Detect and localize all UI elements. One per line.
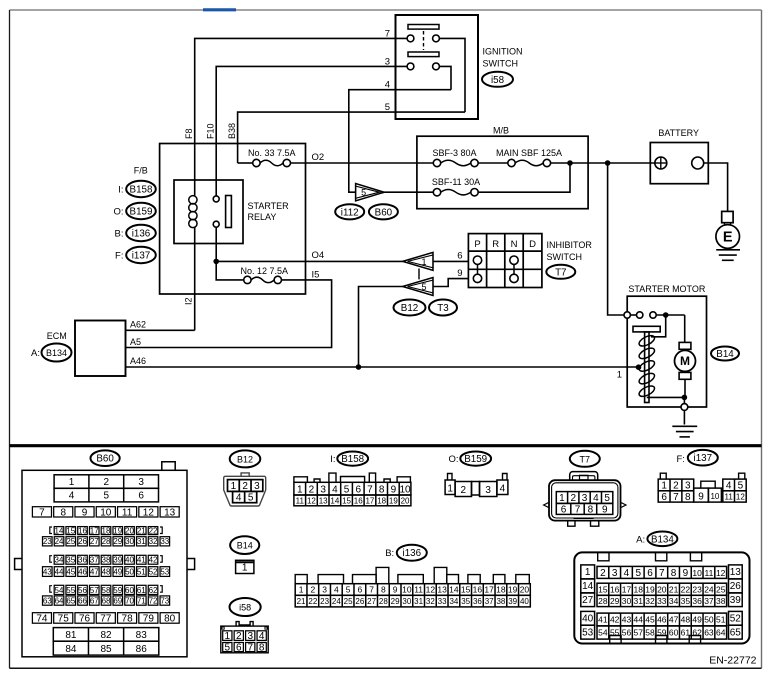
svg-text:4: 4 — [69, 491, 75, 502]
svg-text:9: 9 — [698, 491, 704, 502]
i136 cells 21-40 — [295, 595, 530, 607]
svg-text:i58: i58 — [239, 603, 251, 613]
wire F10 (pin 3 to fuse box) — [216, 66, 407, 143]
svg-text:A5: A5 — [130, 337, 141, 347]
svg-text:2: 2 — [461, 485, 467, 496]
starter relay contact bar — [226, 196, 232, 228]
svg-text:1: 1 — [559, 493, 565, 504]
svg-text:5: 5 — [225, 643, 231, 654]
svg-text:54: 54 — [55, 586, 64, 595]
svg-text:ECM: ECM — [47, 331, 67, 341]
svg-text:F:: F: — [115, 250, 123, 261]
svg-text:7: 7 — [575, 505, 581, 516]
B134 left column cells 1,14,27,40,53 — [581, 565, 595, 579]
svg-text:10: 10 — [399, 484, 411, 495]
B134 cells 2-12 — [597, 566, 727, 578]
i58 cells 1-4 — [223, 631, 232, 641]
B60 cells 1-3 — [54, 475, 158, 489]
svg-text:O4: O4 — [312, 250, 325, 261]
svg-text:19: 19 — [508, 585, 518, 595]
ground symbol under starter motor — [672, 425, 697, 427]
B134 cells 15-25 — [597, 583, 727, 595]
svg-text:44: 44 — [55, 567, 64, 576]
svg-text:20: 20 — [401, 496, 410, 505]
svg-text:51: 51 — [716, 615, 726, 625]
svg-text:86: 86 — [136, 644, 148, 655]
svg-text:I:: I: — [330, 454, 335, 465]
B60 cells 74-80 — [32, 613, 51, 624]
svg-text:7: 7 — [673, 492, 679, 503]
wire 6 (triangle 1 to inhibitor switch) — [433, 260, 468, 262]
svg-text:20: 20 — [520, 585, 530, 595]
svg-text:4: 4 — [334, 585, 339, 595]
svg-text:B14: B14 — [716, 349, 734, 360]
svg-text:I5: I5 — [312, 270, 320, 281]
B134 cells 54-64 — [597, 626, 727, 639]
svg-text:4: 4 — [624, 568, 630, 579]
B134 body — [574, 552, 749, 643]
svg-text:21: 21 — [137, 526, 146, 535]
M/B box — [417, 136, 588, 209]
svg-text:65: 65 — [730, 628, 742, 639]
T7 side latches — [544, 502, 549, 507]
svg-text:9: 9 — [82, 507, 88, 518]
svg-text:8: 8 — [60, 507, 66, 518]
svg-text:17: 17 — [365, 496, 374, 505]
svg-text:1: 1 — [585, 567, 591, 578]
svg-text:26: 26 — [355, 597, 364, 606]
svg-text:64: 64 — [55, 596, 64, 605]
svg-text:49: 49 — [113, 567, 122, 576]
svg-text:37: 37 — [90, 556, 99, 565]
svg-text:3: 3 — [254, 481, 260, 492]
svg-text:9: 9 — [457, 268, 462, 279]
svg-text:24: 24 — [704, 584, 714, 594]
B60 cells 81-83 — [53, 628, 159, 642]
svg-text:8: 8 — [685, 492, 691, 503]
svg-text:61: 61 — [681, 628, 691, 638]
svg-text:6: 6 — [561, 505, 567, 516]
wire solenoid bottom to motor bottom — [647, 396, 685, 398]
node battery junction — [605, 160, 611, 166]
svg-text:4: 4 — [593, 493, 599, 504]
connector pinout i58 oval — [230, 598, 261, 616]
svg-text:25: 25 — [66, 537, 75, 546]
T7 cells 1-5 — [556, 492, 613, 504]
svg-text:i136: i136 — [132, 229, 151, 240]
svg-text:84: 84 — [65, 644, 77, 655]
wire I5 (fuse 12 to ECM A5) — [126, 280, 332, 348]
node O4 junction — [213, 259, 219, 265]
svg-text:I2: I2 — [184, 297, 194, 305]
svg-text:47: 47 — [90, 567, 99, 576]
B158 top tabs — [294, 477, 308, 483]
ignition switch mechanical link (dashed) — [423, 31, 425, 50]
svg-text:4: 4 — [236, 493, 242, 504]
svg-text:B60: B60 — [96, 454, 114, 465]
svg-text:2: 2 — [570, 493, 576, 504]
svg-text:74: 74 — [36, 614, 48, 625]
svg-text:5: 5 — [344, 484, 350, 495]
svg-text:20: 20 — [125, 526, 134, 535]
node wire 1 to solenoid — [636, 364, 642, 370]
svg-text:33: 33 — [160, 537, 169, 546]
svg-text:63: 63 — [43, 596, 52, 605]
svg-text:28: 28 — [379, 597, 388, 606]
svg-text:40: 40 — [125, 556, 134, 565]
svg-text:56: 56 — [622, 628, 632, 638]
svg-text:36: 36 — [78, 556, 87, 565]
svg-text:12: 12 — [307, 496, 316, 505]
svg-text:26: 26 — [78, 537, 87, 546]
svg-text:22: 22 — [308, 597, 317, 606]
wire F8 (pin 7 to fuse box) — [195, 38, 407, 143]
svg-text:3: 3 — [322, 585, 327, 595]
starter relay box — [174, 180, 243, 244]
svg-text:4: 4 — [500, 484, 506, 495]
svg-text:53: 53 — [160, 567, 169, 576]
connector pinout B14 oval — [230, 536, 259, 554]
svg-text:11: 11 — [724, 492, 733, 501]
svg-text:EN-22772: EN-22772 — [709, 655, 756, 667]
svg-text:No. 33 7.5A: No. 33 7.5A — [248, 148, 296, 158]
svg-text:B12: B12 — [401, 303, 418, 314]
B134 right column cells 13,26,39,52,65 — [729, 565, 743, 579]
svg-text:B134: B134 — [46, 348, 67, 358]
svg-text:17: 17 — [622, 584, 632, 594]
svg-text:11: 11 — [122, 507, 133, 518]
svg-text:31: 31 — [137, 537, 146, 546]
i136 cells 1-20 — [295, 584, 530, 596]
svg-text:16: 16 — [354, 496, 363, 505]
svg-text:IGNITION: IGNITION — [483, 47, 523, 57]
svg-text:16: 16 — [78, 526, 87, 535]
svg-text:5: 5 — [248, 493, 254, 504]
connector oval i58 — [482, 72, 513, 87]
wire O2 (fuse 33 to M/B) — [291, 162, 434, 164]
svg-text:59: 59 — [657, 628, 667, 638]
svg-text:18: 18 — [102, 526, 111, 535]
ignition switch pin 7 contacts — [407, 35, 414, 42]
svg-text:1: 1 — [225, 631, 231, 642]
svg-text:SWITCH: SWITCH — [483, 59, 519, 69]
starter motor case terminal — [681, 404, 688, 411]
svg-text:24: 24 — [332, 597, 341, 606]
svg-text:16: 16 — [610, 584, 620, 594]
B134 cells 28-38 — [597, 595, 727, 606]
node motor ground junction — [682, 395, 688, 401]
svg-text:14: 14 — [582, 581, 594, 592]
svg-text:36: 36 — [473, 597, 482, 606]
svg-text:81: 81 — [65, 630, 77, 641]
svg-text:STARTER MOTOR: STARTER MOTOR — [628, 284, 706, 294]
svg-text:R: R — [492, 239, 499, 250]
inhibitor contact links — [477, 264, 479, 274]
i58 cells 5-8 — [223, 643, 232, 652]
svg-text:5: 5 — [604, 493, 610, 504]
B60 cells 23-33 — [43, 537, 53, 546]
svg-text:24: 24 — [55, 537, 64, 546]
svg-text:RELAY: RELAY — [248, 212, 277, 222]
svg-text:28: 28 — [102, 537, 111, 546]
svg-text:F/B: F/B — [134, 166, 148, 176]
svg-text:1: 1 — [231, 481, 237, 492]
svg-text:39: 39 — [113, 556, 122, 565]
svg-text:76: 76 — [79, 614, 91, 625]
svg-text:11: 11 — [414, 585, 423, 595]
svg-text:10: 10 — [402, 585, 412, 595]
connector pinout i58 body — [236, 622, 239, 627]
svg-text:30: 30 — [622, 596, 632, 606]
ground symbol below E — [716, 249, 740, 251]
svg-text:79: 79 — [143, 614, 155, 625]
wire SBF-11 to junction — [478, 163, 570, 192]
svg-text:42: 42 — [610, 615, 620, 625]
svg-text:25: 25 — [716, 584, 726, 594]
ground point square — [722, 211, 733, 222]
svg-text:46: 46 — [657, 615, 667, 625]
svg-text:45: 45 — [645, 615, 655, 625]
svg-text:25: 25 — [344, 597, 353, 606]
svg-text:8: 8 — [379, 484, 385, 495]
svg-text:22: 22 — [149, 526, 158, 535]
connector pinout T7 oval — [570, 451, 600, 467]
B134 bottom notches — [610, 636, 621, 645]
svg-text:i136: i136 — [403, 548, 422, 559]
svg-text:1: 1 — [297, 484, 303, 495]
svg-text:5: 5 — [421, 282, 426, 292]
T7 top tab — [570, 472, 598, 481]
svg-text:i112: i112 — [341, 207, 359, 218]
svg-text:51: 51 — [137, 567, 146, 576]
svg-text:6: 6 — [357, 585, 362, 595]
svg-text:SBF-3 80A: SBF-3 80A — [432, 148, 476, 158]
inhibitor contacts row 9 — [473, 274, 481, 282]
svg-text:B14: B14 — [237, 541, 253, 551]
svg-text:1: 1 — [242, 563, 248, 574]
svg-text:66: 66 — [78, 596, 87, 605]
wire pin7 right contact to pin5 feed — [439, 38, 465, 112]
connector oval T3 — [429, 300, 457, 316]
svg-text:6: 6 — [355, 484, 361, 495]
svg-text:6: 6 — [236, 643, 242, 654]
svg-text:B60: B60 — [375, 207, 393, 218]
svg-text:5: 5 — [104, 491, 110, 502]
svg-text:M/B: M/B — [493, 126, 509, 136]
B60 cells 34-42 — [54, 555, 64, 564]
wire junction to plunger — [651, 315, 666, 337]
i136 top tabs — [295, 575, 307, 584]
svg-text:B158: B158 — [130, 185, 153, 196]
svg-text:6: 6 — [457, 251, 462, 262]
svg-text:16: 16 — [473, 585, 483, 595]
svg-text:5: 5 — [346, 585, 351, 595]
B60 cells 7-13 — [32, 507, 51, 517]
svg-text:12: 12 — [736, 492, 745, 501]
solenoid plunger shaft — [645, 332, 649, 403]
svg-text:T7: T7 — [580, 454, 591, 464]
svg-text:6: 6 — [138, 491, 144, 502]
svg-text:12: 12 — [426, 585, 436, 595]
ignition switch contact bar lower — [408, 52, 439, 57]
svg-text:58: 58 — [645, 628, 655, 638]
svg-text:9: 9 — [393, 585, 398, 595]
wire MAIN SBF to battery — [551, 162, 655, 164]
svg-text:3: 3 — [485, 485, 491, 496]
svg-text:42: 42 — [149, 556, 158, 565]
joint connector triangle 5 (B12/T3) — [403, 278, 433, 296]
node M/B junction — [567, 160, 573, 166]
svg-text:50: 50 — [125, 567, 134, 576]
svg-text:55: 55 — [66, 586, 75, 595]
svg-text:4: 4 — [726, 481, 732, 492]
svg-text:MAIN SBF 125A: MAIN SBF 125A — [496, 148, 562, 158]
wire relay to fuse No.12 — [216, 261, 244, 280]
svg-text:68: 68 — [102, 596, 111, 605]
svg-text:i137: i137 — [132, 251, 151, 262]
svg-text:B159: B159 — [464, 454, 487, 465]
svg-text:21: 21 — [669, 584, 679, 594]
svg-text:F:: F: — [676, 454, 684, 465]
svg-text:63: 63 — [704, 628, 714, 638]
svg-text:39: 39 — [730, 595, 742, 606]
svg-text:No. 12 7.5A: No. 12 7.5A — [241, 266, 289, 276]
svg-text:75: 75 — [58, 614, 70, 625]
svg-text:15: 15 — [66, 526, 75, 535]
svg-text:18: 18 — [496, 585, 506, 595]
node A46/joint junction — [356, 364, 362, 370]
B60 cells 54-62 — [54, 585, 64, 594]
connector oval B12 — [394, 300, 426, 316]
svg-text:i58: i58 — [491, 75, 505, 86]
node solenoid junction — [663, 312, 669, 318]
svg-text:18: 18 — [634, 584, 644, 594]
connector pinout B60 body — [22, 470, 187, 657]
connector pinout B60 oval — [91, 450, 120, 466]
svg-text:32: 32 — [149, 537, 158, 546]
svg-text:14: 14 — [330, 496, 339, 505]
svg-text:10: 10 — [710, 492, 719, 501]
svg-text:F8: F8 — [184, 128, 194, 139]
wire 9 (triangle 5 to inhibitor switch) — [433, 279, 468, 287]
svg-text:B12: B12 — [237, 454, 253, 464]
svg-text:30: 30 — [125, 537, 134, 546]
B158 cells 11-20 — [294, 495, 411, 506]
T7 cells 6-9 — [556, 503, 613, 514]
svg-text:13: 13 — [730, 567, 742, 578]
svg-text:31: 31 — [414, 597, 423, 606]
B60 cells 43-53 — [43, 567, 53, 577]
solenoid contact terminals — [624, 312, 630, 318]
svg-text:5: 5 — [738, 481, 744, 492]
svg-text:BATTERY: BATTERY — [658, 128, 699, 138]
svg-text:3: 3 — [138, 477, 144, 488]
svg-text:82: 82 — [100, 630, 112, 641]
svg-text:48: 48 — [681, 615, 691, 625]
svg-text:41: 41 — [598, 615, 608, 625]
inhibitor contacts row 6 — [473, 256, 481, 264]
svg-text:38: 38 — [716, 596, 726, 606]
starter relay coil on F8 line — [194, 144, 196, 196]
wire pin 4 to joint connector i112 — [349, 90, 451, 193]
joint connector triangle 5 (i112/B60) — [356, 184, 385, 201]
svg-text:65: 65 — [66, 596, 75, 605]
svg-text:46: 46 — [78, 567, 87, 576]
svg-text:34: 34 — [669, 596, 679, 606]
svg-text:12: 12 — [143, 507, 155, 518]
svg-text:23: 23 — [320, 597, 329, 606]
svg-text:57: 57 — [90, 586, 99, 595]
svg-text:3: 3 — [685, 481, 691, 492]
svg-text:F10: F10 — [206, 123, 216, 139]
svg-text:5: 5 — [635, 568, 641, 579]
svg-text:49: 49 — [692, 615, 702, 625]
svg-text:8: 8 — [259, 643, 265, 654]
svg-text:21: 21 — [297, 597, 306, 606]
svg-text:41: 41 — [137, 556, 146, 565]
svg-text:35: 35 — [66, 556, 75, 565]
svg-text:23: 23 — [692, 584, 702, 594]
svg-text:27: 27 — [367, 597, 376, 606]
svg-text:A46: A46 — [130, 356, 146, 366]
svg-text:35: 35 — [681, 596, 691, 606]
svg-text:19: 19 — [113, 526, 122, 535]
svg-text:32: 32 — [645, 596, 655, 606]
connector pinout B14 cell 1 — [236, 560, 254, 573]
svg-text:40: 40 — [520, 597, 529, 606]
ignition switch pin 3 contacts — [407, 63, 414, 70]
svg-text:4: 4 — [332, 484, 338, 495]
svg-text:M: M — [680, 354, 690, 368]
svg-text:11: 11 — [704, 568, 713, 578]
svg-text:19: 19 — [389, 496, 398, 505]
svg-text:D: D — [529, 239, 536, 250]
svg-text:60: 60 — [125, 586, 134, 595]
connector oval B14 — [711, 347, 739, 361]
T7 body outline — [549, 480, 621, 520]
svg-text:15: 15 — [598, 584, 608, 594]
svg-text:53: 53 — [582, 628, 594, 639]
svg-text:52: 52 — [149, 567, 158, 576]
B60 cells 4-6 — [54, 488, 158, 502]
svg-text:B38: B38 — [227, 123, 237, 139]
wire junction to motor — [684, 315, 686, 342]
svg-text:17: 17 — [484, 585, 494, 595]
svg-text:34: 34 — [55, 556, 64, 565]
svg-text:1: 1 — [447, 484, 453, 495]
svg-text:61: 61 — [137, 586, 146, 595]
svg-text:67: 67 — [90, 596, 99, 605]
starter motor M — [679, 342, 691, 349]
svg-text:SBF-11 30A: SBF-11 30A — [432, 177, 480, 187]
svg-text:O:: O: — [448, 454, 458, 465]
svg-text:10: 10 — [692, 568, 702, 578]
svg-text:27: 27 — [582, 595, 594, 606]
link between joint triangles — [418, 269, 420, 280]
svg-text:INHIBITOR: INHIBITOR — [547, 240, 593, 250]
connector pinout B12 body — [241, 473, 249, 476]
svg-text:57: 57 — [634, 628, 644, 638]
svg-text:31: 31 — [634, 596, 644, 606]
svg-text:10: 10 — [100, 507, 112, 518]
svg-text:47: 47 — [669, 615, 679, 625]
svg-text:2: 2 — [673, 481, 679, 492]
i137 cells 1-3 / 6-8 — [658, 479, 694, 491]
svg-text:4: 4 — [259, 631, 265, 642]
svg-text:50: 50 — [704, 615, 714, 625]
starter relay contact circles — [215, 144, 217, 196]
svg-text:19: 19 — [645, 584, 655, 594]
